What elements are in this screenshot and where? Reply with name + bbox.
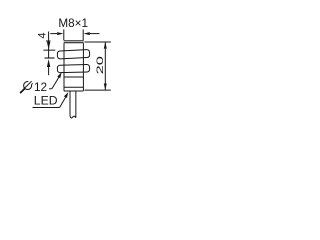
- arrow 4 up (below lower extension): [47, 59, 50, 67]
- arrow 4 down: [47, 42, 50, 50]
- cable gland line: [64, 90, 83, 92]
- housing bottom edge: [64, 86, 83, 88]
- svg-text:20: 20: [94, 56, 105, 74]
- mounting nut 2: [57, 64, 89, 72]
- label LED: [34, 93, 58, 107]
- label 4 (unthreaded tip length) rotated: [36, 32, 48, 38]
- cable cut end: [70, 116, 76, 118]
- cable right edge: [75, 91, 77, 118]
- svg-text:12: 12: [34, 80, 47, 94]
- arrow M8 left: [57, 32, 63, 35]
- label M8x1 thread designation: [58, 17, 88, 30]
- arrow 20 top: [104, 42, 107, 49]
- tick 4 top reference: [46, 40, 51, 42]
- leader line from 12 to nut: [52, 77, 59, 89]
- dimension line 4 vertical: [48, 32, 50, 59]
- barrel right edge: [82, 43, 84, 91]
- wrench icon (spanner size symbol): [21, 81, 33, 92]
- svg-text:M8×1: M8×1: [58, 17, 88, 30]
- arrow M8 right: [84, 32, 90, 35]
- svg-text:4: 4: [36, 32, 48, 38]
- dimension line 20 vertical: [104, 42, 106, 90]
- mounting nut 1: [57, 49, 90, 59]
- leader line from LED to housing: [60, 97, 66, 107]
- extension line 20 bottom: [85, 89, 111, 91]
- arrow 20 bottom: [104, 84, 107, 91]
- tail line below up arrow: [48, 63, 50, 75]
- housing joint line: [64, 76, 83, 78]
- label 20 rotated: [94, 56, 105, 74]
- cable left edge: [69, 91, 71, 116]
- sensing face top edge: [64, 40, 84, 41]
- barrel left edge: [63, 43, 65, 91]
- leader arrow at nut: [57, 72, 61, 78]
- label 12 (wrench size): [34, 80, 47, 94]
- leader arrow at housing: [64, 92, 68, 98]
- leader dash from 12: [49, 88, 52, 90]
- extension line 4 lower (nut bottom): [45, 57, 55, 59]
- extension line M8 left: [63, 29, 65, 40]
- dimension line M8 right tail: [90, 33, 100, 35]
- LED underline: [33, 107, 60, 109]
- extension line 20 top: [85, 41, 111, 43]
- sensing face lower edge: [64, 42, 84, 43]
- svg-text:LED: LED: [34, 93, 58, 107]
- extension line 4 upper (nut top): [43, 49, 55, 51]
- extension line M8 right: [82, 29, 84, 40]
- dimension line M8 left tail: [50, 33, 57, 35]
